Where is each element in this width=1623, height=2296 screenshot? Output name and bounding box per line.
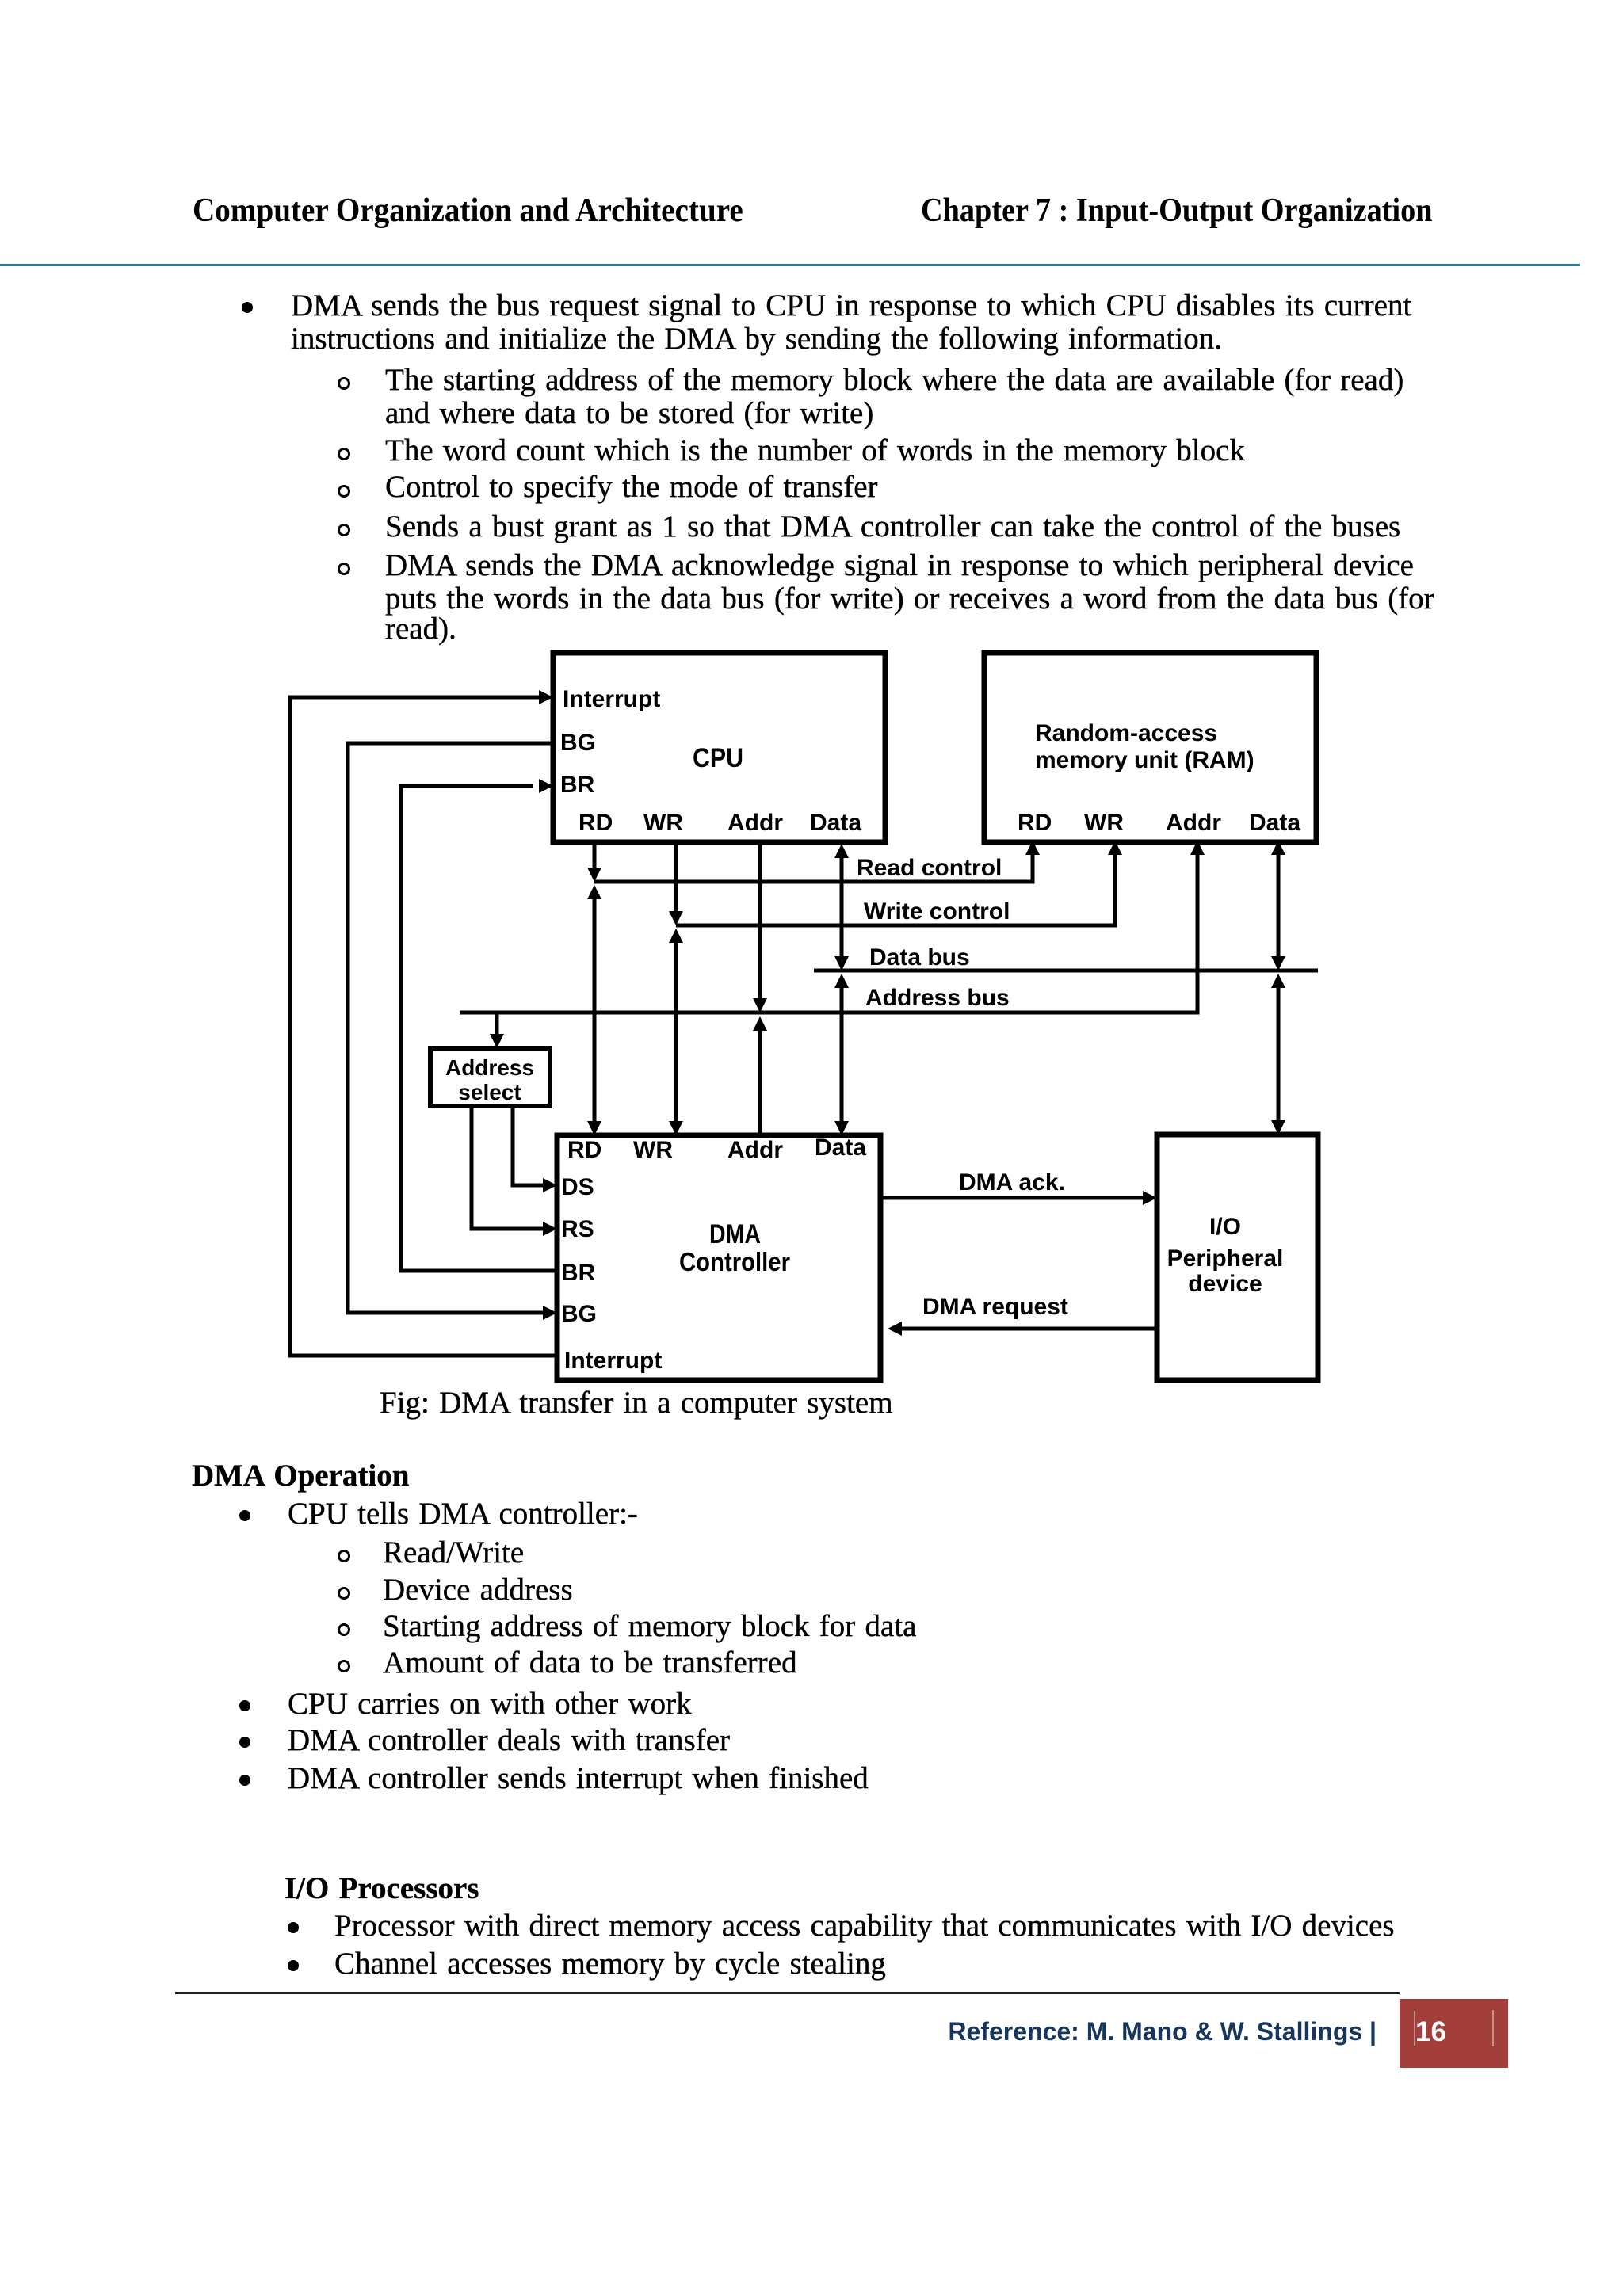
svg-text:DMA ack.: DMA ack. [959,1169,1065,1196]
sub bullet o3 [338,485,350,498]
svg-text:select: select [458,1080,521,1104]
arrow into DMA DS [543,1178,557,1192]
arrow down into DMA Data [834,1121,849,1135]
svg-text:RD: RD [579,810,613,836]
wire: RD to DMA RD [593,898,597,1122]
arrow DMA request into DMA [888,1322,902,1336]
svg-text:Peripheral: Peripheral [1167,1245,1284,1272]
svg-text:WR: WR [1084,810,1124,836]
address select box [430,1048,550,1106]
wire: Data to DMA Data [840,986,844,1122]
svg-text:Addr: Addr [1166,810,1221,836]
arrow into RAM RD [1025,841,1040,855]
svg-text:BG: BG [561,1301,597,1327]
arrow into DMA BG [543,1306,557,1320]
wire: CPU Data down [840,856,844,959]
svg-text:Addr: Addr [727,810,783,836]
arrow DMA ack into IO [1143,1191,1157,1205]
svg-text:RS: RS [561,1216,594,1242]
page number box [1400,1999,1508,2068]
svg-text:device: device [1188,1271,1262,1297]
arrow into CPU interrupt [539,690,553,704]
svg-text:I/O: I/O [1209,1214,1241,1240]
wire: CPU WR down [674,844,678,913]
svg-text:BR: BR [561,1260,596,1286]
svg-text:Write control: Write control [864,898,1010,925]
arrow down into DMA RD [587,1121,601,1135]
wire: data bus to IO box [1277,986,1281,1122]
svg-text:DS: DS [561,1174,594,1200]
svg-text:DMA request: DMA request [922,1294,1068,1320]
arrow RAM data down onto data bus [1271,956,1285,971]
header left [193,193,743,229]
arrow into CPU BR [539,779,553,793]
svg-text:Interrupt: Interrupt [564,1348,662,1374]
svg-text:BG: BG [560,730,596,756]
wire: address select to DS [513,1106,543,1185]
svg-text:Data bus: Data bus [869,944,970,971]
arrow down into DMA WR [669,1121,683,1135]
I/O peripheral box [1157,1135,1318,1380]
svg-text:Read control: Read control [857,855,1002,881]
svg-text:Data: Data [1249,810,1300,836]
arrow into DMA RS [543,1222,557,1236]
wire: CPU RD down [593,844,597,870]
arrow down into address select [490,1034,504,1048]
bullet 1 [242,302,253,313]
svg-text:WR: WR [633,1137,673,1163]
DMA controller box [557,1135,880,1380]
svg-text:DMA: DMA [709,1219,761,1249]
svg-text:Data: Data [810,810,861,836]
svg-text:Address bus: Address bus [865,985,1010,1011]
footer reference [948,2018,1377,2045]
arrow down into IO top [1271,1120,1285,1135]
write control line [676,853,1115,925]
sub bullet o2 [338,448,350,460]
svg-text:Controller: Controller [679,1247,790,1276]
sub bullet o4 [338,524,350,536]
svg-text:Data: Data [815,1135,866,1161]
svg-text:memory unit (RAM): memory unit (RAM) [1035,747,1254,773]
arrow RD up from below [587,885,601,899]
arrow Data up from below [834,974,849,988]
sub bullet o1 [338,377,350,390]
arrow Addr up from below [753,1016,767,1031]
data bus line [814,969,1318,973]
wire: DMA BR to CPU BR [401,786,557,1271]
svg-text:WR: WR [643,810,683,836]
address bus line [460,853,1197,1013]
arrow into RAM Data [1271,841,1285,855]
wire: WR to DMA WR [674,941,678,1122]
svg-text:RD: RD [567,1137,601,1163]
arrow into RAM WR [1108,841,1122,855]
RAM box [984,653,1316,842]
arrow WR up from below [669,929,683,943]
read control line [594,853,1033,882]
svg-text:Address: Address [445,1055,534,1080]
wire: DMA ack [880,1196,1144,1200]
arrow WR down onto write control [669,911,683,925]
arrow RD down onto read control [587,868,601,882]
figure caption [380,1386,893,1420]
wire: Addr to DMA Addr [758,1028,762,1138]
arrow Addr down onto address bus [753,998,767,1013]
wire: address select to RS [472,1106,543,1229]
wire: RAM data down to data bus [1277,853,1281,959]
arrow RAM data up from below [1271,974,1285,988]
sub bullet o5 [338,563,350,575]
I/O Processors heading [285,1872,479,1905]
svg-text:BR: BR [560,772,595,798]
wire: CPU BG to DMA BG [348,743,553,1313]
svg-text:Addr: Addr [727,1137,783,1163]
svg-text:CPU: CPU [693,743,743,773]
wire: address bus to address select [495,1013,499,1036]
wire: DMA interrupt to CPU interrupt [290,697,557,1356]
svg-text:RD: RD [1018,810,1052,836]
header right [921,193,1433,229]
teal rule [0,264,1580,266]
svg-text:Random-access: Random-access [1035,720,1217,746]
footer rule [175,1992,1400,1994]
arrow Data up into CPU [834,844,849,858]
CPU box [553,653,885,842]
arrow into RAM Addr [1190,841,1205,855]
wire: CPU Addr down [758,844,762,1001]
arrow Data down onto data bus [834,956,849,971]
DMA Operation heading [192,1459,409,1493]
wire: DMA request [900,1327,1157,1331]
svg-text:Interrupt: Interrupt [563,686,660,712]
